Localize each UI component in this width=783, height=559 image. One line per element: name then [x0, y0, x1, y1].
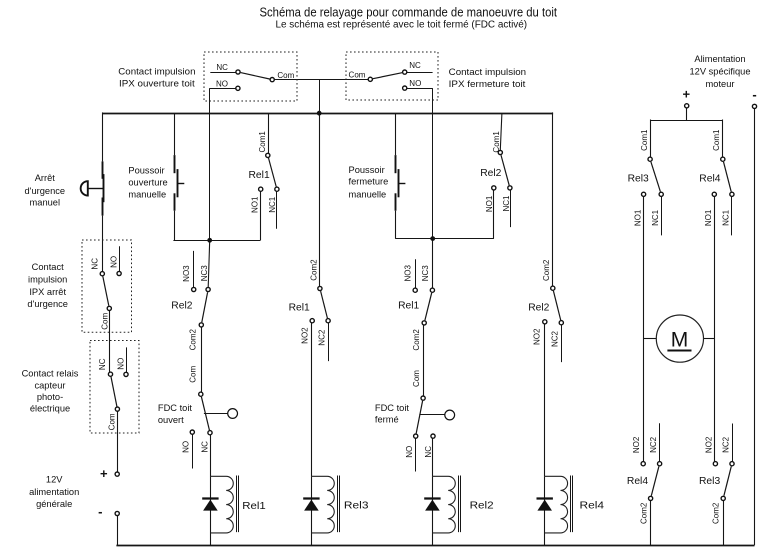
- svg-text:NO2: NO2: [301, 327, 310, 344]
- svg-text:NC1: NC1: [722, 209, 731, 226]
- svg-text:Com: Com: [412, 370, 421, 387]
- svg-text:Poussoir: Poussoir: [349, 165, 385, 175]
- svg-text:Rel4: Rel4: [699, 174, 720, 185]
- svg-text:NC1: NC1: [651, 209, 660, 226]
- svg-text:Com2: Com2: [412, 329, 421, 351]
- svg-text:Rel4: Rel4: [580, 500, 605, 512]
- svg-text:+: +: [100, 466, 108, 481]
- svg-text:Rel4: Rel4: [627, 476, 648, 487]
- svg-text:Com2: Com2: [639, 502, 648, 524]
- svg-text:NO: NO: [216, 79, 228, 88]
- svg-text:capteur: capteur: [34, 380, 65, 390]
- svg-text:NO2: NO2: [533, 328, 542, 345]
- svg-text:Contact impulsion: Contact impulsion: [449, 67, 526, 77]
- svg-text:photo-: photo-: [37, 392, 63, 402]
- svg-text:fermeture: fermeture: [349, 177, 389, 187]
- svg-text:Com1: Com1: [712, 129, 721, 151]
- svg-text:alimentation: alimentation: [29, 487, 79, 497]
- svg-text:12V spécifique: 12V spécifique: [690, 66, 751, 76]
- svg-text:Com1: Com1: [492, 131, 501, 153]
- svg-text:Rel3: Rel3: [628, 174, 649, 185]
- svg-text:d'urgence: d'urgence: [25, 186, 66, 196]
- svg-text:NC3: NC3: [200, 265, 209, 282]
- svg-text:NO: NO: [405, 446, 414, 458]
- svg-text:Schéma de relayage pour comman: Schéma de relayage pour commande de mano…: [260, 5, 558, 20]
- svg-text:NC: NC: [216, 63, 228, 72]
- svg-text:impulsion: impulsion: [28, 275, 67, 285]
- svg-text:NO3: NO3: [182, 265, 191, 282]
- svg-text:fermé: fermé: [375, 415, 399, 425]
- svg-text:Rel2: Rel2: [171, 300, 192, 311]
- svg-text:Rel2: Rel2: [470, 500, 494, 512]
- svg-text:IPX ouverture toit: IPX ouverture toit: [119, 79, 195, 89]
- svg-text:NC1: NC1: [502, 195, 511, 212]
- svg-text:IPX arrêt: IPX arrêt: [29, 287, 66, 297]
- svg-text:Rel2: Rel2: [528, 302, 549, 313]
- svg-text:NC: NC: [424, 446, 433, 458]
- svg-text:IPX fermeture toit: IPX fermeture toit: [449, 79, 526, 89]
- svg-text:NC: NC: [91, 258, 100, 270]
- svg-text:Com: Com: [101, 313, 110, 330]
- svg-text:Rel1: Rel1: [242, 500, 266, 512]
- svg-text:NO1: NO1: [704, 209, 713, 226]
- svg-text:électrique: électrique: [30, 404, 70, 414]
- svg-text:NC3: NC3: [421, 265, 430, 282]
- svg-text:+: +: [683, 87, 691, 102]
- svg-text:ouverture: ouverture: [128, 178, 167, 188]
- svg-text:Com2: Com2: [712, 502, 721, 524]
- svg-text:NO1: NO1: [251, 196, 260, 213]
- svg-text:Rel1: Rel1: [289, 302, 310, 313]
- svg-text:NC: NC: [409, 61, 421, 70]
- svg-text:12V: 12V: [46, 475, 63, 485]
- svg-text:NC2: NC2: [722, 436, 731, 453]
- svg-text:M: M: [671, 328, 689, 351]
- svg-text:NC: NC: [98, 358, 107, 370]
- svg-text:Com: Com: [108, 413, 117, 430]
- svg-text:-: -: [98, 504, 102, 519]
- svg-text:d'urgence: d'urgence: [27, 299, 68, 309]
- svg-text:Com: Com: [277, 71, 294, 80]
- svg-text:Com2: Com2: [189, 328, 198, 350]
- svg-text:NC2: NC2: [550, 330, 559, 347]
- svg-text:manuelle: manuelle: [128, 189, 166, 199]
- svg-text:Com2: Com2: [309, 259, 318, 281]
- svg-text:NO: NO: [109, 256, 118, 268]
- svg-text:NO3: NO3: [404, 265, 413, 282]
- svg-text:manuelle: manuelle: [349, 189, 387, 199]
- svg-text:NC2: NC2: [649, 436, 658, 453]
- svg-text:Alimentation: Alimentation: [694, 54, 745, 64]
- svg-text:-: -: [752, 87, 756, 102]
- svg-text:Com: Com: [189, 366, 198, 383]
- svg-text:FDC toit: FDC toit: [158, 403, 193, 413]
- svg-text:Poussoir: Poussoir: [128, 166, 164, 176]
- svg-text:Rel3: Rel3: [699, 476, 720, 487]
- svg-text:NC1: NC1: [268, 196, 277, 213]
- svg-text:ouvert: ouvert: [158, 415, 184, 425]
- svg-text:manuel: manuel: [30, 197, 61, 207]
- svg-text:Com2: Com2: [542, 259, 551, 281]
- svg-text:NC: NC: [201, 441, 210, 453]
- svg-text:Com1: Com1: [640, 129, 649, 151]
- svg-text:Le schéma est représenté avec: Le schéma est représenté avec le toit fe…: [276, 19, 528, 30]
- svg-text:Contact: Contact: [32, 262, 64, 272]
- svg-text:NO: NO: [117, 358, 126, 370]
- svg-text:NC2: NC2: [318, 329, 327, 346]
- svg-text:Com1: Com1: [258, 131, 267, 153]
- svg-text:NO1: NO1: [485, 195, 494, 212]
- svg-text:Rel1: Rel1: [398, 301, 419, 312]
- svg-text:Rel1: Rel1: [249, 170, 270, 181]
- svg-text:Rel2: Rel2: [480, 168, 501, 179]
- svg-text:NO: NO: [182, 441, 191, 453]
- svg-text:moteur: moteur: [706, 79, 735, 89]
- svg-text:FDC toit: FDC toit: [375, 403, 410, 413]
- svg-text:NO2: NO2: [705, 436, 714, 453]
- svg-text:Arrêt: Arrêt: [35, 173, 56, 183]
- svg-text:NO1: NO1: [633, 209, 642, 226]
- svg-text:Com: Com: [349, 71, 366, 80]
- svg-text:Contact impulsion: Contact impulsion: [118, 66, 195, 76]
- svg-text:générale: générale: [36, 499, 72, 509]
- svg-text:Contact relais: Contact relais: [22, 368, 79, 378]
- svg-text:NO: NO: [409, 79, 421, 88]
- svg-text:Rel3: Rel3: [344, 500, 369, 512]
- svg-text:NO2: NO2: [632, 436, 641, 453]
